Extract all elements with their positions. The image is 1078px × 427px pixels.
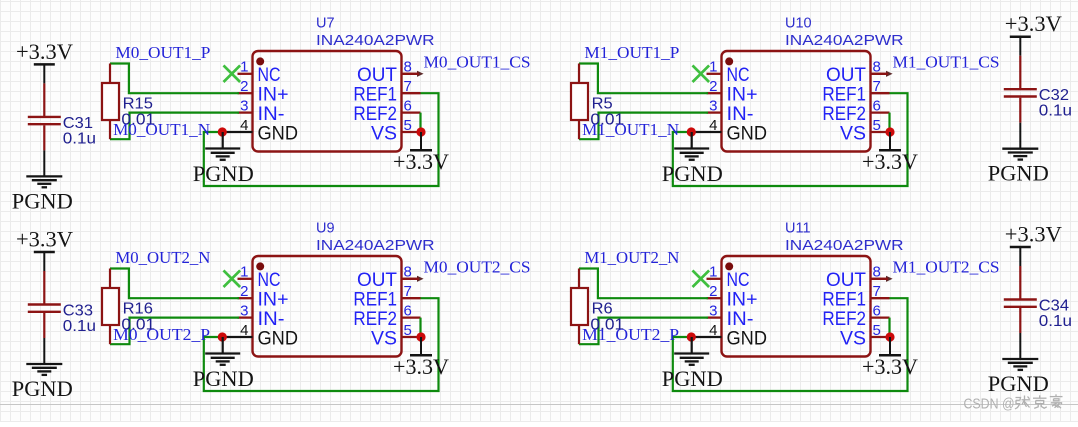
svg-text:PGND: PGND bbox=[12, 376, 73, 401]
svg-text:R16: R16 bbox=[123, 301, 153, 318]
svg-text:M1_OUT1_N: M1_OUT1_N bbox=[582, 120, 679, 139]
svg-text:M1_OUT2_P: M1_OUT2_P bbox=[582, 325, 679, 344]
svg-text:M0_OUT1_CS: M0_OUT1_CS bbox=[424, 53, 531, 72]
svg-text:CSDN @: CSDN @ bbox=[964, 397, 1015, 413]
svg-text:M0_OUT1_N: M0_OUT1_N bbox=[113, 120, 210, 139]
svg-text:+3.3V: +3.3V bbox=[16, 227, 73, 252]
svg-text:0.1u: 0.1u bbox=[1039, 313, 1072, 330]
svg-text:U7: U7 bbox=[316, 15, 335, 31]
svg-text:M1_OUT2_N: M1_OUT2_N bbox=[584, 248, 679, 267]
svg-text:0.1u: 0.1u bbox=[63, 130, 96, 147]
svg-text:0.1u: 0.1u bbox=[63, 318, 96, 335]
svg-text:C31: C31 bbox=[63, 115, 93, 132]
svg-text:M0_OUT2_N: M0_OUT2_N bbox=[115, 248, 210, 267]
svg-text:C34: C34 bbox=[1039, 298, 1069, 315]
svg-text:U10: U10 bbox=[785, 15, 812, 31]
svg-text:R15: R15 bbox=[123, 96, 153, 113]
svg-text:+3.3V: +3.3V bbox=[16, 39, 73, 64]
svg-text:M0_OUT2_CS: M0_OUT2_CS bbox=[424, 258, 531, 277]
svg-text:+3.3V: +3.3V bbox=[1005, 11, 1062, 36]
svg-text:U9: U9 bbox=[316, 220, 335, 236]
svg-text:M0_OUT2_P: M0_OUT2_P bbox=[113, 325, 210, 344]
svg-text:PGND: PGND bbox=[988, 161, 1049, 186]
svg-text:C33: C33 bbox=[63, 303, 93, 320]
svg-text:M1_OUT1_P: M1_OUT1_P bbox=[584, 43, 679, 62]
svg-text:0.1u: 0.1u bbox=[1039, 103, 1072, 120]
svg-text:+3.3V: +3.3V bbox=[1005, 222, 1062, 247]
svg-text:M1_OUT2_CS: M1_OUT2_CS bbox=[893, 258, 1000, 277]
svg-text:R6: R6 bbox=[592, 301, 613, 318]
svg-text:C32: C32 bbox=[1039, 87, 1069, 104]
svg-text:M1_OUT1_CS: M1_OUT1_CS bbox=[893, 53, 1000, 72]
svg-text:M0_OUT1_P: M0_OUT1_P bbox=[115, 43, 210, 62]
svg-text:PGND: PGND bbox=[12, 188, 73, 213]
svg-text:PGND: PGND bbox=[988, 371, 1049, 396]
svg-text:R5: R5 bbox=[592, 96, 613, 113]
svg-text:U11: U11 bbox=[785, 220, 811, 236]
